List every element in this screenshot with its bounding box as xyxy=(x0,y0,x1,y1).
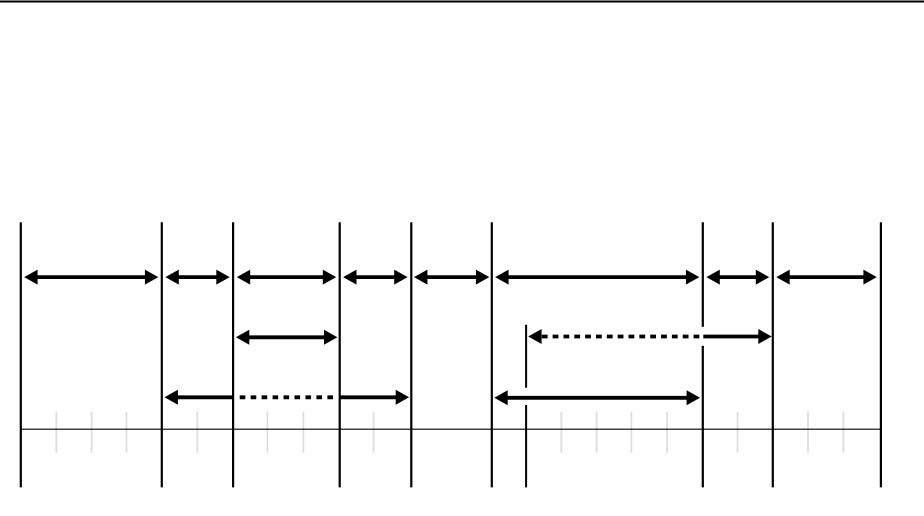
horizontal axis line xyxy=(21,428,881,430)
axis tick t6 xyxy=(302,412,304,453)
row2 solid arrow B3 (right head) xyxy=(703,329,771,344)
row3 left-head arrow C1 xyxy=(165,390,234,405)
axis tick t10 xyxy=(630,412,632,453)
vertical boundary line V6 xyxy=(491,222,493,487)
axis tick t3 xyxy=(126,412,128,453)
short vertical line V10 xyxy=(525,325,527,488)
axis tick t5 xyxy=(266,412,268,453)
white break in V10 where arrow crosses xyxy=(524,388,528,405)
vertical boundary line V4 xyxy=(339,222,341,487)
vertical boundary line V2 xyxy=(161,222,163,487)
axis tick t13 xyxy=(807,412,809,453)
vertical boundary line V7 xyxy=(702,222,704,487)
vertical boundary line V9 xyxy=(880,222,882,487)
row1 double arrow A3 xyxy=(237,270,336,285)
row3 dashed segment C2 xyxy=(240,395,333,399)
axis tick t2 xyxy=(91,412,93,453)
axis tick t12 xyxy=(737,412,739,453)
axis tick t9 xyxy=(596,412,598,453)
vertical boundary line V3 xyxy=(232,222,234,487)
vertical boundary line V5 xyxy=(410,222,412,487)
row1 double arrow A7 xyxy=(706,270,769,285)
row1 double arrow A1 xyxy=(24,270,158,285)
axis tick t1 xyxy=(55,412,57,453)
axis tick t11 xyxy=(666,412,668,453)
row1 double arrow A8 xyxy=(776,270,877,285)
axis tick t8 xyxy=(560,412,562,453)
row2 double arrow B1 xyxy=(236,330,338,345)
top horizontal rule xyxy=(0,1,924,3)
row1 double arrow A6 xyxy=(495,270,699,285)
white break in V7 where dashed arrow crosses xyxy=(701,327,705,346)
row3 right-head arrow C3 xyxy=(340,390,409,405)
vertical boundary line V1 xyxy=(20,222,22,487)
row1 double arrow A4 xyxy=(343,270,408,285)
axis tick t7 xyxy=(373,412,375,453)
axis tick t4 xyxy=(196,412,198,453)
row1 double arrow A5 xyxy=(414,270,489,285)
axis tick t14 xyxy=(842,412,844,453)
row1 double arrow A2 xyxy=(165,270,229,285)
vertical boundary line V8 xyxy=(772,222,774,487)
row3 double arrow C4 xyxy=(494,390,700,405)
row2 dashed arrow B2 (left head, dashed shaft) xyxy=(528,329,699,344)
